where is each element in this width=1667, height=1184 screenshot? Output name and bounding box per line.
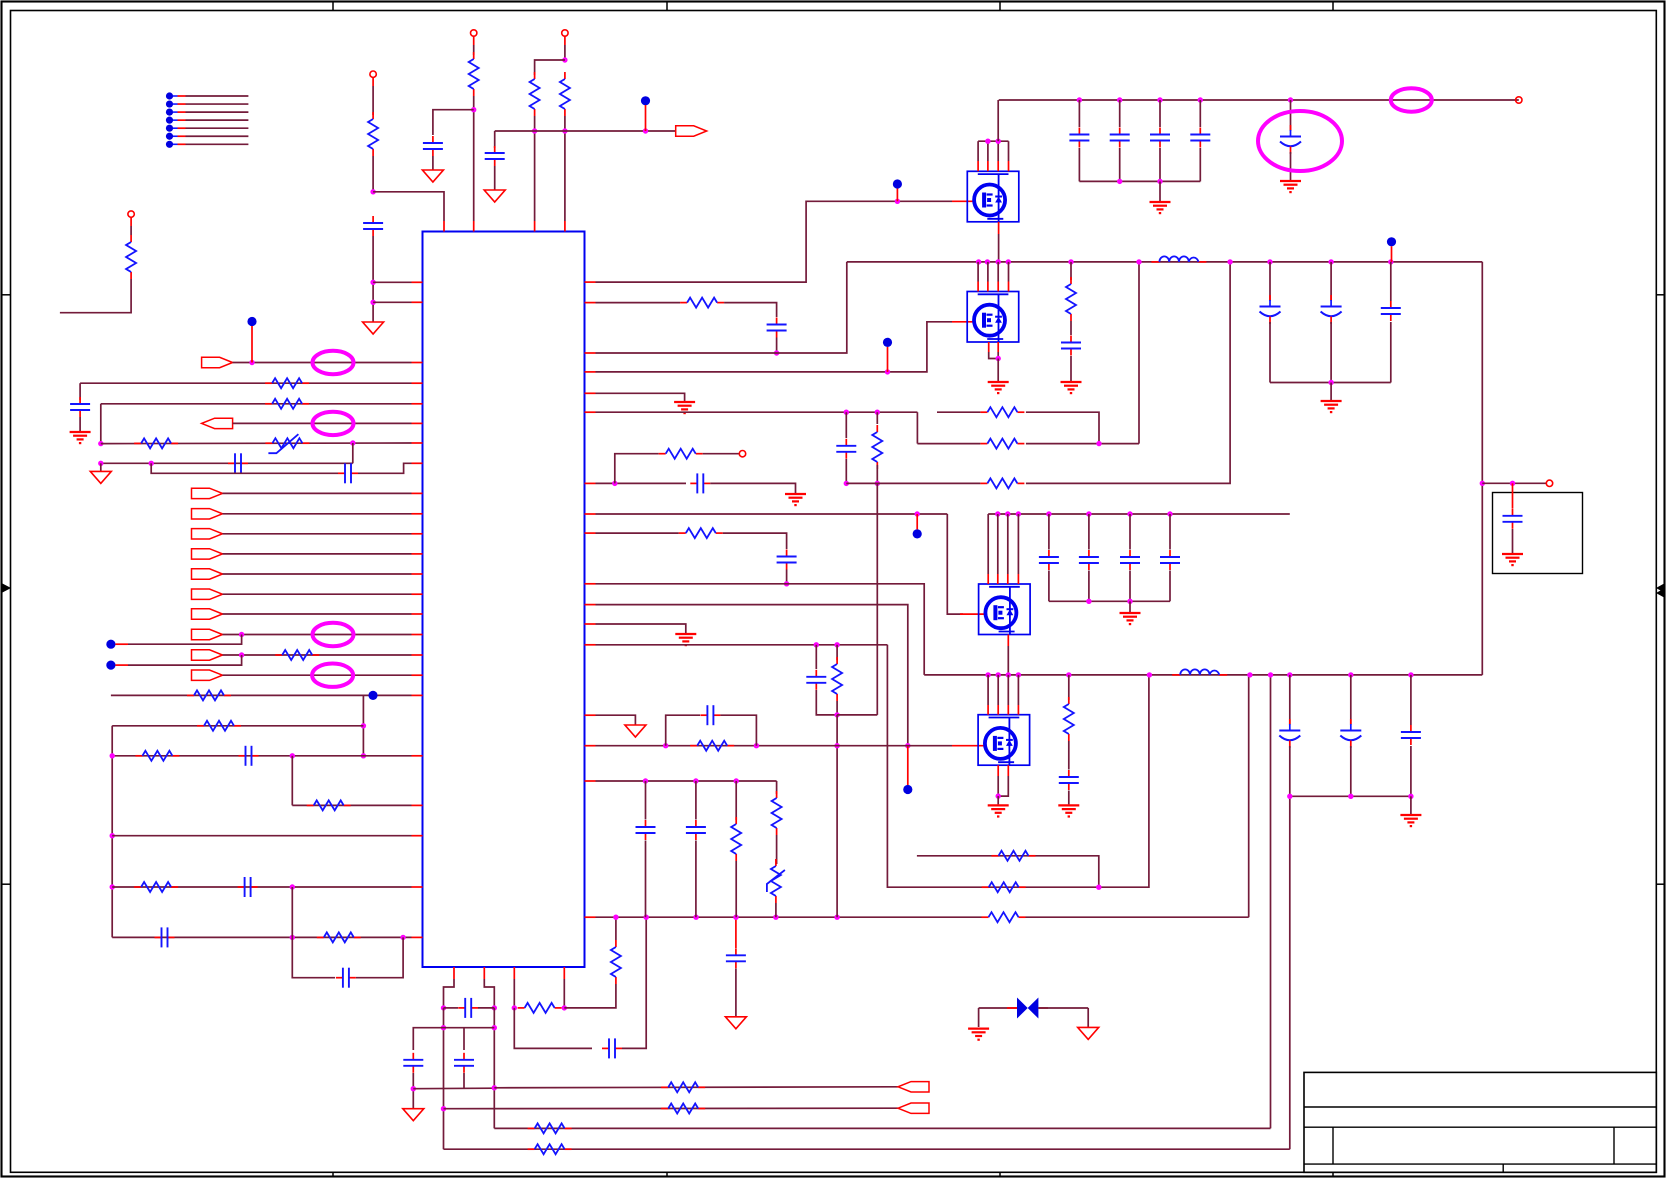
blue dot M2 gate — [883, 338, 892, 347]
resistor R28 — [980, 482, 987, 484]
wire row412 — [585, 411, 596, 413]
ground pgnd row715 — [625, 725, 646, 737]
bus1b y262 — [847, 261, 1483, 263]
node bus3 1149 — [1147, 672, 1152, 677]
node row781 696 — [693, 778, 698, 783]
node row463 left — [98, 461, 103, 466]
terminal row454 — [739, 451, 745, 457]
wire row594 — [223, 593, 412, 595]
capacitor C5 series — [338, 472, 345, 474]
node bank4 1411 — [1408, 794, 1413, 799]
resistor R33 chain — [735, 781, 737, 820]
node bus3 988 — [985, 672, 990, 677]
port out row594 — [192, 589, 223, 599]
wire rowC right up — [1026, 262, 1230, 484]
wire row574 — [223, 573, 412, 575]
capacitor C25 chain — [1199, 100, 1201, 127]
Q1 top pins — [978, 140, 1008, 142]
capacitor C22 chain — [1078, 100, 1080, 127]
resistor R3 — [473, 52, 475, 59]
wire node110 left — [433, 110, 474, 135]
bus row917 from IC — [585, 916, 596, 918]
resistor R8 — [134, 442, 141, 444]
node gate M4 — [905, 743, 910, 748]
wire row553 — [223, 553, 412, 555]
long vertical 1482 — [1481, 262, 1483, 675]
wire row887 — [112, 886, 411, 888]
wire row1109 — [444, 1107, 899, 1110]
cap bank2 bus — [1270, 382, 1391, 384]
Q2 source pins — [988, 342, 990, 352]
wire row362 — [233, 362, 412, 364]
resistor R9 — [275, 654, 282, 656]
title block frame — [1304, 1072, 1656, 1172]
wire to IC pin 302 — [373, 301, 411, 303]
mosfet Q4 — [978, 715, 1030, 766]
wire row1149 — [444, 1148, 1290, 1150]
wire bus2 to M3 gate — [947, 514, 963, 614]
wire row584 — [585, 583, 596, 585]
Q4 top pins — [987, 675, 989, 705]
capacitor C7 series — [238, 886, 245, 888]
resistor R16 — [661, 1086, 668, 1088]
resistor R32 — [690, 745, 697, 747]
wire right vert 1290 — [1289, 796, 1291, 1149]
node 60 — [562, 57, 567, 62]
node bank4 1290 — [1287, 794, 1292, 799]
cap bank3 C34 chain — [1129, 514, 1131, 550]
terminal VCC3 — [562, 30, 568, 36]
node bus917 776 — [773, 915, 778, 920]
capacitor C11 — [412, 1053, 414, 1060]
node row937 403 — [400, 935, 405, 940]
wire rowB right — [1026, 443, 1139, 445]
node rail 1200 — [1198, 97, 1203, 102]
cap bank4 bus — [1290, 795, 1411, 797]
ground earth D1 — [968, 1027, 989, 1029]
wire row412 corner to rowB — [916, 412, 918, 443]
ellipse marker row362 — [313, 351, 354, 374]
node bus3 1069 — [1066, 672, 1071, 677]
node port dot — [643, 128, 648, 133]
wire 494 down — [493, 1008, 495, 1129]
cap bank3 bus — [1049, 600, 1170, 602]
wire 837 down — [836, 715, 838, 917]
wire row463 — [101, 462, 353, 464]
header J1 bus wires — [166, 92, 173, 99]
node row887 mid — [290, 884, 295, 889]
wire R2 down — [372, 156, 374, 192]
wire row604 to M4 gate — [585, 604, 596, 606]
ground earth C26 — [1280, 180, 1301, 182]
node R5 131 — [562, 128, 567, 133]
title block line3 — [1304, 1163, 1656, 1165]
Q3 drain down — [1007, 635, 1009, 647]
ellipse marker big — [1258, 111, 1342, 171]
IC bottom pin 564 chain — [563, 967, 565, 979]
bulk cap C26 in ellipse — [1290, 100, 1292, 131]
node rail 1079 — [1077, 97, 1082, 102]
node row584 787 — [784, 581, 789, 586]
wire C2 gnd — [432, 156, 434, 170]
wire bank3 gnd — [1129, 601, 1131, 612]
title block div2 — [1613, 1127, 1615, 1164]
node row887/1099 — [1096, 885, 1101, 890]
node 726 right — [361, 723, 366, 728]
node dbus 1049 — [1046, 511, 1051, 516]
blue dot bus2 — [913, 529, 922, 538]
resistor R22 — [992, 855, 999, 857]
resistor R10 — [187, 694, 194, 696]
blue dot wire row644 — [106, 640, 115, 649]
node Q1 top 998 — [996, 139, 1001, 144]
wire row1008 to 616 — [564, 984, 616, 1008]
resistor R25 chain — [876, 412, 878, 424]
title block line1 — [1304, 1106, 1656, 1108]
port out row553 — [192, 549, 223, 559]
wire row383 left down — [79, 383, 81, 400]
terminal VCC2 — [471, 30, 477, 36]
node dbus 1018 — [1016, 511, 1021, 516]
wire terminal branch right — [1482, 482, 1546, 484]
border mid arrows — [2, 583, 12, 593]
capacitor C3 — [494, 146, 496, 153]
inductor L2 — [1172, 674, 1180, 676]
wire row887 right — [887, 645, 1149, 887]
wire 887-937 link — [291, 887, 293, 937]
border ticks — [332, 2, 334, 11]
wire C14 down — [776, 338, 778, 354]
wire R30 to C17 — [723, 533, 787, 549]
resistor R30 — [679, 532, 686, 534]
ground pgnd C2 — [422, 170, 443, 182]
ground pgnd D1 — [1078, 1027, 1099, 1039]
capacitor C20 chain — [645, 781, 647, 820]
node row781 646 — [643, 778, 648, 783]
ground earth row393 — [674, 401, 695, 403]
bus3 y675 — [924, 674, 1482, 676]
node 443/1109 — [441, 1106, 446, 1111]
ground earth bank3 — [1120, 612, 1141, 614]
wire row1129 — [494, 1127, 1270, 1129]
mosfet Q1 — [967, 171, 1019, 222]
node rail 1120 — [1117, 97, 1122, 102]
wire rowC — [846, 482, 980, 484]
port in row423 — [202, 418, 233, 428]
resistor R2 — [372, 112, 374, 119]
node row746 756 — [754, 743, 759, 748]
wire row614 — [223, 613, 412, 615]
ground pgnd row463 — [100, 463, 102, 471]
node dbus 1008 — [1005, 511, 1010, 516]
wire row282 to M1 gate — [585, 281, 596, 283]
node bus1b 1139 — [1136, 259, 1141, 264]
node 413/1089 — [411, 1086, 416, 1091]
node bus3 1250 — [1247, 672, 1252, 677]
node pin302 — [370, 300, 375, 305]
ground earth bank4 — [1400, 814, 1421, 816]
wire R3 to IC — [473, 96, 475, 221]
border side ticks — [2, 294, 11, 296]
node box cap — [1510, 481, 1515, 486]
wire bank4 gnd — [1410, 796, 1412, 814]
wire C4 gnd — [79, 417, 81, 431]
node Q1 top 988 — [985, 139, 990, 144]
node row412 846 — [844, 410, 849, 415]
node bus3 1008 — [1006, 672, 1011, 677]
capacitor C36 — [1068, 770, 1070, 777]
ground earth bank1 — [1150, 201, 1171, 203]
cap bank2 C28 chain — [1269, 262, 1271, 301]
wire row726 — [112, 725, 363, 727]
wire row393 — [585, 392, 596, 394]
node 494/1008 — [492, 1005, 497, 1010]
capacitor C14 — [776, 318, 778, 325]
node bus3 1351 — [1348, 672, 1353, 677]
node bank 1160 — [1157, 179, 1162, 184]
wire C16 right gnd — [710, 483, 795, 493]
resistor R18 — [528, 1127, 535, 1129]
capacitor C23 chain — [1119, 100, 1121, 127]
wire Q2 gnd — [997, 359, 999, 382]
node bus3 1018 — [1016, 672, 1021, 677]
parallel cap loop C9 — [292, 937, 335, 977]
wire row353 — [585, 352, 596, 354]
node bus917 837 — [834, 915, 839, 920]
node row353 — [774, 350, 779, 355]
wire row533 — [585, 532, 596, 534]
node bus3 1290 — [1287, 672, 1292, 677]
node row836 left — [110, 833, 115, 838]
blue dot wire row665 — [106, 661, 115, 670]
node gate M1 — [895, 199, 900, 204]
wire row674 — [223, 674, 412, 676]
node row756 left — [110, 753, 115, 758]
node 514/1008 — [512, 1005, 517, 1010]
node row463 mid — [149, 461, 154, 466]
terminal right — [1546, 480, 1552, 486]
port out row533 — [192, 529, 223, 539]
wire row836 — [112, 835, 411, 837]
node row937 292 — [290, 935, 295, 940]
capacitor C21 chain — [695, 781, 697, 820]
ground pgnd C11 — [403, 1109, 424, 1121]
cap bank4 C37 chain — [1289, 675, 1291, 725]
ground earth bank2 — [1321, 400, 1342, 402]
node rowC 846 — [844, 481, 849, 486]
blue dot row695 — [368, 691, 377, 700]
node Q2 source — [996, 356, 1001, 361]
port out row614 — [192, 609, 223, 619]
node 443/1028 — [441, 1025, 446, 1030]
node 1482 branch — [1480, 481, 1485, 486]
blue dot net1 — [641, 96, 650, 105]
node row634 — [239, 632, 244, 637]
wire row805 link — [291, 756, 293, 806]
ground pgnd R2 — [363, 322, 384, 334]
capacitor C27 — [1070, 336, 1072, 343]
wire R21 to bus — [615, 917, 617, 940]
ground earth R36 — [1058, 804, 1079, 806]
wire row302 — [585, 302, 596, 304]
wire C1 down — [372, 236, 374, 322]
ellipse marker row674 — [312, 664, 353, 687]
node bus917 696 — [693, 915, 698, 920]
node 756 right — [361, 753, 366, 758]
diode D1 TVS — [979, 1007, 1017, 1009]
M3 drain bus y514 — [988, 513, 1290, 515]
IC bottom pin 514 chain — [513, 967, 515, 979]
resistor R19 — [528, 1148, 535, 1150]
wire row1088 right — [494, 1087, 898, 1088]
wire R24 to C14 — [724, 303, 777, 317]
wire row715 to 877 — [837, 714, 877, 716]
resistor R14 — [134, 886, 141, 888]
cap bank4 C38 chain — [1350, 675, 1352, 725]
port out TP1 — [676, 126, 707, 136]
terminal top rail — [1516, 97, 1522, 103]
Q4 source pins — [997, 765, 999, 776]
wire cap row to 646 — [622, 917, 646, 1048]
port out row674 — [192, 670, 223, 680]
wire row372 to M2 gate — [585, 371, 596, 373]
resistor R6 — [265, 382, 272, 384]
node 837/715 — [834, 712, 839, 717]
wire D1 left gnd — [978, 1008, 980, 1027]
wire terminal branch — [615, 454, 659, 484]
wire row443 — [101, 442, 412, 445]
IC bottom pin 454 chain — [453, 967, 455, 979]
bus row917 right part — [1026, 916, 1249, 918]
node bus1b 1270 — [1267, 259, 1272, 264]
resistor R29 — [659, 453, 666, 455]
node bank4 1351 — [1348, 794, 1353, 799]
title block div1 — [1332, 1127, 1334, 1164]
wire rowA right — [1026, 412, 1099, 443]
node bus917 736 — [733, 915, 738, 920]
title block div3 — [1502, 1164, 1504, 1172]
wire row805 — [292, 804, 411, 806]
wire R1 to edge — [60, 279, 131, 313]
wire row756 — [112, 755, 411, 757]
Q2 top pins — [977, 262, 979, 282]
rowB wire — [917, 443, 980, 445]
blue dot M4 gate — [903, 785, 912, 794]
node pin282 — [370, 280, 375, 285]
wire left vertical 112 — [111, 726, 113, 938]
wire C11 down — [412, 1073, 414, 1109]
wire R5 to IC — [564, 116, 566, 221]
parallel cap C19 loop — [666, 715, 700, 746]
node row372 — [885, 369, 890, 374]
capacitor C12 — [463, 1028, 465, 1050]
wire row655 — [223, 654, 412, 656]
node bank 1120 — [1117, 179, 1122, 184]
resistor R21 vertical — [615, 940, 617, 947]
node row887 left — [110, 884, 115, 889]
node 494/1088 — [492, 1085, 497, 1090]
node bus1b 1008 — [1006, 259, 1011, 264]
wire row533 — [223, 533, 412, 535]
bus2 row514 from IC — [585, 513, 596, 515]
capacitor C15 chain — [845, 412, 847, 438]
node bank3 1089 — [1086, 599, 1091, 604]
wire to IC pin 282 — [373, 281, 411, 283]
node row645 837 — [834, 642, 839, 647]
resistor R11 — [197, 725, 204, 727]
node row655 — [239, 652, 244, 657]
box outline — [1493, 493, 1583, 574]
capacitor C8 series — [155, 936, 162, 938]
blue dot M1 gate — [893, 179, 902, 188]
wire C5 left — [151, 463, 338, 473]
wire row856 — [917, 856, 1099, 887]
capacitor C40 chain — [735, 917, 737, 948]
mosfet Q3 — [979, 584, 1031, 635]
node Q4 source — [996, 793, 1001, 798]
node row443 left — [98, 441, 103, 446]
node bus1b 979 — [976, 259, 981, 264]
node 443/1008 — [441, 1005, 446, 1010]
node bank3 1130 — [1127, 599, 1132, 604]
port out row493 — [192, 488, 223, 498]
cap bank bus — [1079, 180, 1200, 182]
wire row695 down — [362, 695, 364, 755]
resistor R5 — [564, 72, 566, 79]
capacitor C1 — [372, 216, 374, 223]
node row746 666 — [663, 743, 668, 748]
node dbus 1089 — [1086, 511, 1091, 516]
resistor R23 — [982, 886, 989, 888]
node dbus 1170 — [1167, 511, 1172, 516]
capacitor C5b series — [228, 462, 235, 464]
node rail 1290 — [1288, 97, 1293, 102]
ground earth Q4 — [988, 804, 1009, 806]
capacitor C18 chain — [815, 645, 817, 669]
resistor R34 chain — [776, 781, 778, 794]
node bus1b 999 — [996, 259, 1001, 264]
resistor R20 series — [518, 1007, 525, 1009]
ellipse marker rail — [1391, 88, 1432, 111]
wire row937 — [112, 936, 411, 938]
node R4 131 — [532, 128, 537, 133]
wire row634 — [223, 634, 412, 636]
ground earth C4 — [70, 431, 91, 433]
capacitor C13 series — [602, 1047, 609, 1049]
ground earth R35 — [1061, 381, 1082, 383]
node row412 877 — [875, 410, 880, 415]
resistor R31 chain — [836, 645, 838, 660]
capacitor C10 series — [444, 1007, 459, 1009]
wire Q4 gnd — [997, 796, 999, 804]
resistor R12 — [135, 755, 142, 757]
wire row781 pin — [585, 780, 596, 782]
wire row404 left down — [100, 404, 102, 444]
capacitor C17 — [786, 550, 788, 557]
wire row383 — [80, 382, 411, 384]
wire rail down to Q1 — [997, 100, 999, 141]
wire row513 — [223, 513, 412, 515]
wire rowC IC side — [585, 482, 596, 484]
node bus917 616 — [613, 915, 618, 920]
wire right vert 1270 — [1270, 675, 1272, 1129]
cap bank2 C30 chain — [1390, 262, 1392, 301]
thermistor RT1 — [265, 442, 272, 444]
node rowC 877 — [875, 481, 880, 486]
capacitor C24 chain — [1159, 100, 1161, 127]
resistor R7 — [265, 403, 272, 405]
resistor R26 — [980, 411, 987, 413]
